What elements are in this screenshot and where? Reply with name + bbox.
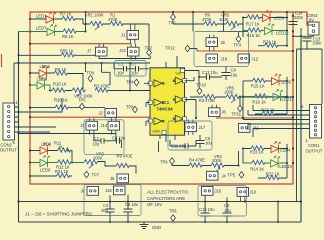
resistor R24 1K xyxy=(265,43,279,47)
wire R3 row xyxy=(190,96,293,98)
svg-text:VR1 100K: VR1 100K xyxy=(85,13,104,18)
svg-text:C12 10u: C12 10u xyxy=(202,70,217,75)
svg-text:J13: J13 xyxy=(119,48,126,53)
jumper J3 xyxy=(86,121,98,130)
svg-text:TP9: TP9 xyxy=(87,71,95,76)
jumper J6 xyxy=(87,187,99,196)
capacitor C2 10u xyxy=(101,138,104,144)
group box J3/J14/C2/C8 xyxy=(84,120,124,155)
LED LED11 xyxy=(273,90,282,102)
wire TP11 stub xyxy=(239,96,241,106)
svg-text:R17 1K: R17 1K xyxy=(246,22,260,27)
svg-text:R18 1K: R18 1K xyxy=(247,33,261,38)
svg-text:J1: J1 xyxy=(121,33,126,38)
LED LED9 xyxy=(40,156,49,168)
svg-text:OUTPUT: OUTPUT xyxy=(306,149,323,154)
svg-text:10u: 10u xyxy=(101,208,108,213)
LED LED2 xyxy=(39,66,48,78)
test point TP7 xyxy=(84,171,89,177)
wire vertical tap x85.5 xyxy=(85,12,87,32)
svg-text:TP5: TP5 xyxy=(228,173,236,178)
wire R31 row xyxy=(30,175,72,177)
svg-text:74HC04: 74HC04 xyxy=(157,107,174,112)
wire red mid rail right xyxy=(216,117,293,119)
capacitor C3 10u xyxy=(106,209,115,212)
svg-text:470E: 470E xyxy=(108,17,118,22)
resistor R9b 470E xyxy=(116,163,130,167)
svg-text:J16: J16 xyxy=(215,189,222,194)
svg-text:CAPACITORS ARE: CAPACITORS ARE xyxy=(147,196,185,201)
jumper J18 xyxy=(206,54,218,63)
svg-text:J7: J7 xyxy=(87,49,92,54)
svg-text:J6: J6 xyxy=(222,110,227,115)
capacitor C13 330n xyxy=(303,38,312,41)
wire GND border left/bottom xyxy=(19,32,302,223)
svg-text:LED3: LED3 xyxy=(41,142,52,147)
svg-text:R13 1K: R13 1K xyxy=(250,149,264,154)
wire C11 row xyxy=(170,140,196,146)
svg-text:J10: J10 xyxy=(250,190,257,195)
svg-text:TP11: TP11 xyxy=(232,112,242,117)
wire J7/J13 lower bus xyxy=(99,56,150,59)
svg-text:10n: 10n xyxy=(117,71,125,76)
svg-text:TP9: TP9 xyxy=(160,160,168,165)
wire R24 row xyxy=(258,45,287,47)
svg-text:R14 1K: R14 1K xyxy=(250,166,264,171)
wire CON3 red lead xyxy=(307,24,312,26)
wire C12 row xyxy=(199,71,222,88)
jumper J11 xyxy=(239,124,251,133)
connector CON2 xyxy=(3,103,15,140)
test point TP9b xyxy=(170,158,175,164)
wire mid ground rail xyxy=(19,201,302,203)
resistor R7 1K xyxy=(62,16,76,20)
jumper J15 xyxy=(114,186,126,195)
svg-text:10n: 10n xyxy=(131,71,139,76)
resistor R20 1K xyxy=(55,105,69,109)
LED LED6 xyxy=(263,11,272,23)
svg-text:CON1: CON1 xyxy=(308,143,320,148)
resistor R10 1K xyxy=(52,88,66,92)
capacitor C7 10u xyxy=(136,66,139,72)
svg-text:R31 1K: R31 1K xyxy=(55,169,69,174)
jumper J7 xyxy=(96,47,108,56)
resistor R9 1K xyxy=(54,71,68,75)
capacitor C11 10u xyxy=(185,143,188,149)
wire CON1 leads xyxy=(243,105,310,137)
jumper J14 xyxy=(108,121,120,130)
svg-text:LED11: LED11 xyxy=(282,97,295,102)
potentiometer VR4 100K xyxy=(211,163,225,167)
jumper J13 xyxy=(128,47,140,56)
capacitor C1 10u xyxy=(124,66,127,72)
test point TP2 xyxy=(147,49,152,55)
connector CON3 xyxy=(308,22,319,35)
jumper J2 xyxy=(105,109,117,118)
svg-text:R24 1K: R24 1K xyxy=(263,40,277,45)
wire R23 row / vertical taps xyxy=(243,77,287,118)
wire R4 row xyxy=(159,141,239,166)
test point TP3 xyxy=(236,36,241,42)
svg-text:R8 1K: R8 1K xyxy=(62,34,74,39)
capacitor C5 10u xyxy=(124,209,133,212)
svg-text:VR2 100K: VR2 100K xyxy=(74,94,93,99)
group box J17/C11/C5 xyxy=(168,121,212,150)
wire C1/C7 row xyxy=(114,63,148,69)
svg-text:TP12: TP12 xyxy=(165,46,176,51)
wire R55 row xyxy=(19,54,96,56)
wire jumper caps joins xyxy=(19,134,122,149)
svg-text:TP7: TP7 xyxy=(92,173,100,178)
svg-text:1K: 1K xyxy=(58,145,63,150)
svg-text:C8 10u: C8 10u xyxy=(112,135,125,140)
jumper J8 xyxy=(206,38,218,47)
svg-text:J5: J5 xyxy=(110,176,115,181)
LED LED10 xyxy=(271,156,280,168)
svg-text:R4 470E: R4 470E xyxy=(189,158,205,163)
connector CON1 xyxy=(310,105,322,139)
resistor R1 470E xyxy=(110,21,124,25)
resistor R11 1K xyxy=(58,148,72,152)
svg-text:TP3: TP3 xyxy=(234,43,242,48)
svg-text:R10 1K: R10 1K xyxy=(53,82,67,87)
wire LED7 row (green) xyxy=(19,31,86,33)
wire LED4 row xyxy=(243,148,287,150)
jumper J1 xyxy=(127,31,139,40)
wire red mid rail left xyxy=(30,116,150,118)
svg-text:R2 470E: R2 470E xyxy=(94,84,110,89)
resistor R2 470E xyxy=(95,88,109,92)
svg-text:J17: J17 xyxy=(199,125,206,130)
svg-text:R15 1K: R15 1K xyxy=(251,83,265,88)
ground GND symbol xyxy=(140,222,149,229)
svg-text:10u: 10u xyxy=(231,73,238,78)
svg-text:J1 – J18 = SHORTING JUMPERS: J1 – J18 = SHORTING JUMPERS xyxy=(25,212,92,217)
wire 9V supply ring (red) xyxy=(30,12,307,184)
wire R2 to TP4 xyxy=(109,63,151,91)
LED LED5 xyxy=(272,74,281,86)
capacitor C10 10u xyxy=(201,213,210,216)
wire LED8 row (green) xyxy=(30,85,50,91)
svg-text:470E: 470E xyxy=(202,17,212,22)
svg-text:GND: GND xyxy=(153,129,161,133)
resistor R18 1K xyxy=(248,28,262,32)
svg-text:J12: J12 xyxy=(252,57,259,62)
LED LED3 xyxy=(40,143,49,155)
resistor R4 470E xyxy=(189,163,203,167)
test point TP5 xyxy=(80,103,85,109)
resistor R13 1K xyxy=(251,146,265,150)
svg-text:R20 1K: R20 1K xyxy=(54,98,68,103)
jumper J17 xyxy=(185,123,197,132)
svg-text:R7 1K: R7 1K xyxy=(60,12,72,17)
resistor R8 1K xyxy=(63,29,77,33)
svg-text:J18: J18 xyxy=(221,57,228,62)
wire TP3 stubs xyxy=(218,12,248,36)
wire TP12 stub xyxy=(190,49,197,52)
resistor R14 1K xyxy=(252,160,266,164)
wire LED3 row xyxy=(30,151,72,163)
wire TP1 to R6 row xyxy=(173,12,243,37)
potentiometer VR1 100K xyxy=(90,21,104,25)
svg-text:9V: 9V xyxy=(309,18,314,23)
svg-text:J11: J11 xyxy=(253,126,260,131)
wire LED11 row (green) xyxy=(243,96,287,98)
potentiometer VR2 100K xyxy=(72,88,86,92)
svg-text:J4: J4 xyxy=(222,174,227,179)
svg-text:J8: J8 xyxy=(221,40,226,45)
wire red stub top-right xyxy=(197,50,293,52)
capacitor C5b 10u xyxy=(196,141,205,144)
wire long bus y63 xyxy=(14,62,150,64)
svg-text:J6: J6 xyxy=(81,189,86,194)
svg-text:R23 1K: R23 1K xyxy=(261,108,275,113)
resistor R22 1K xyxy=(266,175,280,179)
LED LED7 xyxy=(47,25,56,37)
svg-text:R9 1K: R9 1K xyxy=(55,67,67,72)
svg-text:J2: J2 xyxy=(99,111,104,116)
wire VR1 to R1 xyxy=(104,24,150,49)
IC U1: IC1 74HC04 hex inverter xyxy=(144,11,323,223)
wire vertical tap x287 xyxy=(243,12,287,46)
svg-text:100K: 100K xyxy=(224,90,234,95)
svg-text:LED6: LED6 xyxy=(274,16,285,21)
resistor R6 470E xyxy=(204,21,218,25)
svg-text:OF 16V: OF 16V xyxy=(147,202,162,207)
wire C13/C14 links xyxy=(293,28,322,222)
svg-text:R16 1K: R16 1K xyxy=(252,100,266,105)
svg-text:10u: 10u xyxy=(93,141,100,146)
wire stub x278 xyxy=(277,202,279,223)
wire VR3 to R9 row xyxy=(98,162,137,174)
svg-text:C1: C1 xyxy=(118,62,124,67)
svg-text:100K: 100K xyxy=(93,156,103,161)
svg-text:C10 10u: C10 10u xyxy=(199,207,214,212)
svg-text:R3 470E: R3 470E xyxy=(199,98,215,103)
group box J8/J18/J12/C9/C12 xyxy=(194,32,249,67)
svg-text:J15: J15 xyxy=(105,188,112,193)
page artifact red dash xyxy=(1,54,3,67)
jumper J12 xyxy=(238,54,250,63)
resistor R15 1K xyxy=(252,78,266,82)
LED LED4 xyxy=(271,142,280,154)
svg-text:100K: 100K xyxy=(212,158,222,163)
test point TP1 xyxy=(171,14,176,20)
resistor R3 470E xyxy=(203,94,217,98)
svg-text:LED8: LED8 xyxy=(37,77,48,82)
LED LED1 xyxy=(46,12,55,24)
wire R20 row to J2 xyxy=(30,91,105,108)
jumper J5 xyxy=(117,174,129,183)
capacitor C12 10u xyxy=(207,74,210,80)
svg-text:LED7: LED7 xyxy=(36,26,47,31)
potentiometer VR5 100K xyxy=(226,94,240,98)
svg-text:LED10: LED10 xyxy=(279,164,292,169)
capacitor C14 220n xyxy=(289,22,298,25)
group box J6/J15/C3/C5 xyxy=(84,185,141,216)
wire LED12 row (green) xyxy=(243,30,287,32)
wire IC top feeds xyxy=(160,12,193,146)
wire LED2 row xyxy=(30,73,83,91)
test point TP5 xyxy=(239,172,244,178)
svg-text:100K: 100K xyxy=(219,17,229,22)
LED LED12 xyxy=(265,24,274,36)
jumper J6b xyxy=(209,108,221,117)
potentiometer VR6 100K xyxy=(226,21,240,25)
svg-text:10u: 10u xyxy=(205,141,212,146)
resistor R12 1K xyxy=(58,160,72,164)
svg-text:C5 10u: C5 10u xyxy=(125,202,138,207)
resistor R23 1K xyxy=(262,111,276,115)
wire LED1 row xyxy=(30,19,90,24)
group box C1/C7 xyxy=(115,61,147,77)
svg-text:TP2: TP2 xyxy=(145,46,153,51)
svg-text:LED9: LED9 xyxy=(40,168,51,173)
group box J16/J10/C10/C4 xyxy=(198,186,247,217)
resistor R55 1K xyxy=(61,53,75,57)
capacitor C9 10u xyxy=(222,73,231,76)
wire LED5 row xyxy=(243,80,287,82)
resistor R16 1K xyxy=(254,94,268,98)
wire VR2 top feed xyxy=(86,63,111,85)
svg-text:TP10: TP10 xyxy=(196,83,207,88)
test point TP11 xyxy=(238,105,243,111)
resistor R31 1K xyxy=(57,173,71,177)
potentiometer VR3 100K xyxy=(84,160,98,164)
wire R22 row / vertical taps xyxy=(243,144,287,178)
svg-text:330n: 330n xyxy=(312,41,322,46)
wire IC left pin leads xyxy=(144,83,150,126)
svg-text:Vcc: Vcc xyxy=(176,72,182,76)
jumper J4 xyxy=(207,171,219,180)
svg-text:ALL ELECTROLYTIC: ALL ELECTROLYTIC xyxy=(147,190,189,195)
svg-text:TP4: TP4 xyxy=(126,80,134,85)
svg-text:C2: C2 xyxy=(94,136,100,141)
wire LED10 row (green) xyxy=(243,162,287,164)
svg-text:220n: 220n xyxy=(294,15,304,20)
LED LED8 xyxy=(37,78,46,90)
capacitor C8 10u xyxy=(117,138,120,144)
node junction dots on red rails xyxy=(17,11,302,203)
svg-text:GND: GND xyxy=(152,225,161,230)
wire LED9 row (green) xyxy=(30,162,84,164)
svg-text:IC1: IC1 xyxy=(162,100,169,105)
resistor R17 1K xyxy=(247,15,261,19)
capacitor C4 10u xyxy=(223,213,232,216)
svg-text:TP6: TP6 xyxy=(169,209,177,214)
jumper J16 xyxy=(202,187,214,196)
svg-text:LED4: LED4 xyxy=(280,148,291,153)
test point TP9 xyxy=(88,75,93,81)
svg-text:R55 1K: R55 1K xyxy=(60,48,74,53)
svg-text:OUTPUT: OUTPUT xyxy=(0,148,17,153)
wire LED6 row xyxy=(243,17,287,19)
svg-text:J14: J14 xyxy=(101,123,108,128)
svg-text:R22 1K: R22 1K xyxy=(266,172,280,177)
wire red stub top-left xyxy=(30,43,131,45)
wire CON2 leads xyxy=(14,63,62,132)
svg-text:LED1: LED1 xyxy=(36,14,47,19)
svg-text:C7: C7 xyxy=(131,62,137,67)
svg-text:LED2: LED2 xyxy=(40,64,51,69)
wire IC right pin leads xyxy=(185,71,200,119)
jumper J10 xyxy=(237,188,249,197)
